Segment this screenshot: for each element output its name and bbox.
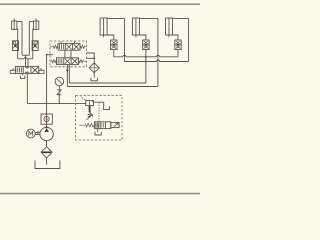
pressure gauge PG1	[55, 77, 64, 89]
dashed pilot vertical to valve DV4	[98, 102, 100, 122]
junction riser top	[46, 54, 48, 56]
gauge riser wire	[58, 95, 60, 103]
wire filter F2 to tank	[93, 73, 95, 78]
top border line	[0, 3, 200, 5]
spring DV3 left	[50, 60, 56, 63]
wire V1 bottom to valve bus	[113, 50, 115, 57]
tank symbol T2	[91, 78, 97, 81]
arrow on outer port	[66, 70, 69, 72]
wire CV4 bottom to B-line	[17, 41, 19, 59]
wire B drop to valve DV1	[27, 59, 29, 67]
wire block inner bottom port	[68, 65, 70, 83]
relief valve RV1 body	[86, 101, 94, 106]
check valve V3	[175, 40, 181, 50]
cylinder CYL4 (top-left small cylinder)	[12, 19, 17, 30]
wire valve outlet bus	[114, 56, 178, 58]
shaft motor to pump	[35, 131, 40, 135]
spring RV1	[89, 106, 91, 112]
stubs above DV2	[61, 41, 75, 43]
check valve V1	[111, 40, 117, 50]
motor M1	[26, 129, 35, 138]
wire inner return line	[69, 82, 146, 84]
tank symbol under DV1	[20, 76, 25, 79]
wire block right port upper to filter F2	[87, 53, 95, 63]
junction pump top	[46, 126, 48, 128]
directional valve DV2 (top valve in block)	[58, 43, 80, 50]
wire block outer bottom port (with arrow)	[66, 65, 68, 87]
wire DV1 T port	[22, 74, 24, 76]
junction filter line	[93, 57, 95, 59]
wire A drop to valve DV1	[25, 55, 27, 66]
valve block dashed enclosure VB1	[50, 41, 87, 67]
wire CV5 bottom to B-line	[32, 41, 34, 59]
pump P1	[40, 127, 53, 140]
solenoid box DV4 right	[111, 122, 119, 127]
wire CYL4 top port to A-line	[17, 22, 22, 56]
wire B-line bus	[18, 58, 33, 60]
hop over CYL2 line	[157, 55, 160, 56]
cylinder CYL1 (right group)	[100, 18, 107, 37]
wire CYL1 bottom to valve V1	[107, 35, 114, 40]
tank symbol T3	[103, 106, 109, 109]
hop over CYL1 line	[123, 55, 126, 56]
pressure valve DV4 (in manifold)	[94, 122, 110, 129]
wire bus2 (cylinder tops)	[124, 61, 188, 63]
manifold dashed enclosure VB2	[76, 96, 123, 141]
tank symbol T4	[95, 132, 101, 135]
wire pump to filter	[46, 141, 48, 147]
check valve box CV6 (above pump)	[41, 114, 52, 127]
actuator DV1 right	[39, 69, 44, 74]
spring DV2 left	[50, 45, 58, 48]
hop bus2 over CYL2 line	[157, 60, 160, 62]
spring DV2 right	[80, 45, 87, 48]
wire V2 bottom down to inner return	[145, 50, 147, 84]
directional valve DV1 (4/3, left)	[15, 66, 38, 73]
wire outer return line	[67, 86, 157, 88]
junction bus2 / V2 line	[145, 61, 147, 63]
check valve CV5	[32, 41, 38, 51]
wire riser to valve block left port	[47, 54, 53, 56]
hop B-line over A drop	[24, 57, 27, 58]
spring DV3 right	[79, 60, 87, 63]
filter F1	[41, 147, 52, 158]
check valve V2	[143, 40, 149, 50]
tank T1	[35, 160, 60, 168]
wire interconnect DV2-DV3	[65, 50, 71, 58]
wire CYL3 bottom to valve V3	[173, 35, 179, 40]
wire CYL4 bottom to check valve CV4	[16, 29, 19, 41]
junction riser/pressure	[46, 103, 48, 105]
junction gauge tee	[58, 103, 60, 105]
wire pump riser	[46, 55, 48, 114]
wire A-line bus	[22, 54, 29, 56]
wire CYL1 top port	[107, 19, 124, 62]
junction valve bus / V2 line	[145, 56, 147, 58]
wire CYL2 top port down to outer return	[139, 19, 158, 87]
cylinder CYL3 (right group right)	[166, 18, 173, 37]
wire filter to tank	[46, 158, 48, 165]
wire CYL3 top port	[173, 19, 189, 62]
wire RV1 outlet to tank T3	[94, 102, 104, 106]
filter F2	[89, 63, 99, 73]
wire CYL2 bottom to valve V2	[139, 35, 146, 40]
actuator DV1 left	[10, 69, 15, 74]
dashed pilot line RV1	[81, 97, 86, 101]
directional valve DV3 (bottom valve in block)	[57, 58, 79, 65]
wire CYL5 bottom to check valve CV5	[32, 29, 35, 41]
adjuster arrow RV1	[86, 114, 92, 119]
wire block right port lower	[87, 57, 95, 59]
cylinder CYL2 (right group middle)	[132, 18, 139, 37]
wire DV4 to tank T4	[97, 129, 99, 132]
wire CYL5 top port to A-line	[29, 22, 33, 56]
wire DV1 P port down to pressure line	[26, 74, 28, 104]
wire V3 bottom to valve bus	[177, 50, 179, 57]
gauge isolator valve	[57, 89, 62, 96]
cylinder CYL5 (top-left right small cylinder)	[34, 19, 39, 30]
check valve CV4	[12, 41, 18, 51]
wire pressure line P	[27, 102, 85, 104]
bottom border line	[0, 193, 200, 195]
spring DV4 left	[79, 123, 94, 127]
